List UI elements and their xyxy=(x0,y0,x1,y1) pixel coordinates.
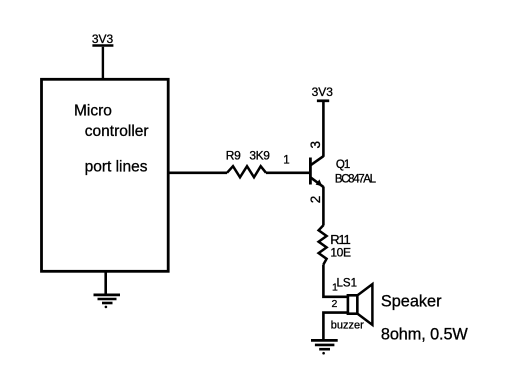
resistor R11 10E xyxy=(319,225,351,264)
svg-text:R9: R9 xyxy=(226,148,241,162)
ground (left) xyxy=(94,295,121,308)
svg-text:3V3: 3V3 xyxy=(312,85,334,99)
microcontroller box xyxy=(42,79,169,271)
wire 3V3 to Q1 collector xyxy=(322,101,325,157)
speaker LS1 body xyxy=(348,284,373,325)
svg-text:1: 1 xyxy=(332,282,338,294)
wire MCU box to R9 xyxy=(168,172,227,175)
power 3V3 (left) xyxy=(92,32,114,46)
svg-text:3V3: 3V3 xyxy=(92,32,114,46)
wire Q1 emitter to R11 xyxy=(322,187,325,226)
svg-text:Micro: Micro xyxy=(74,103,112,120)
svg-text:controller: controller xyxy=(85,123,149,140)
svg-text:2: 2 xyxy=(332,298,338,310)
svg-text:buzzer: buzzer xyxy=(331,320,364,332)
svg-text:LS1: LS1 xyxy=(337,278,357,290)
transistor Q1 BC847AL xyxy=(310,156,323,187)
ground (right) xyxy=(311,340,338,354)
svg-text:8ohm, 0.5W: 8ohm, 0.5W xyxy=(381,325,469,343)
svg-text:1: 1 xyxy=(283,155,289,167)
wire MCU box to ground xyxy=(104,271,107,293)
wire LS1 pin 2 to ground xyxy=(323,313,348,339)
svg-text:Q1: Q1 xyxy=(336,159,350,171)
svg-text:Speaker: Speaker xyxy=(381,292,442,310)
svg-text:10E: 10E xyxy=(330,246,351,260)
wire 3V3 to MCU box xyxy=(102,47,104,79)
wire R11 to LS1 pin 1 xyxy=(323,265,348,297)
svg-text:2: 2 xyxy=(308,196,323,204)
svg-text:port lines: port lines xyxy=(85,158,148,175)
svg-text:3K9: 3K9 xyxy=(249,148,270,162)
svg-text:3: 3 xyxy=(308,141,323,149)
wire R9 to Q1 base xyxy=(266,172,310,175)
resistor R9 3K9 xyxy=(226,148,270,177)
svg-text:BC847AL: BC847AL xyxy=(335,174,377,186)
power 3V3 (right) xyxy=(312,85,334,101)
